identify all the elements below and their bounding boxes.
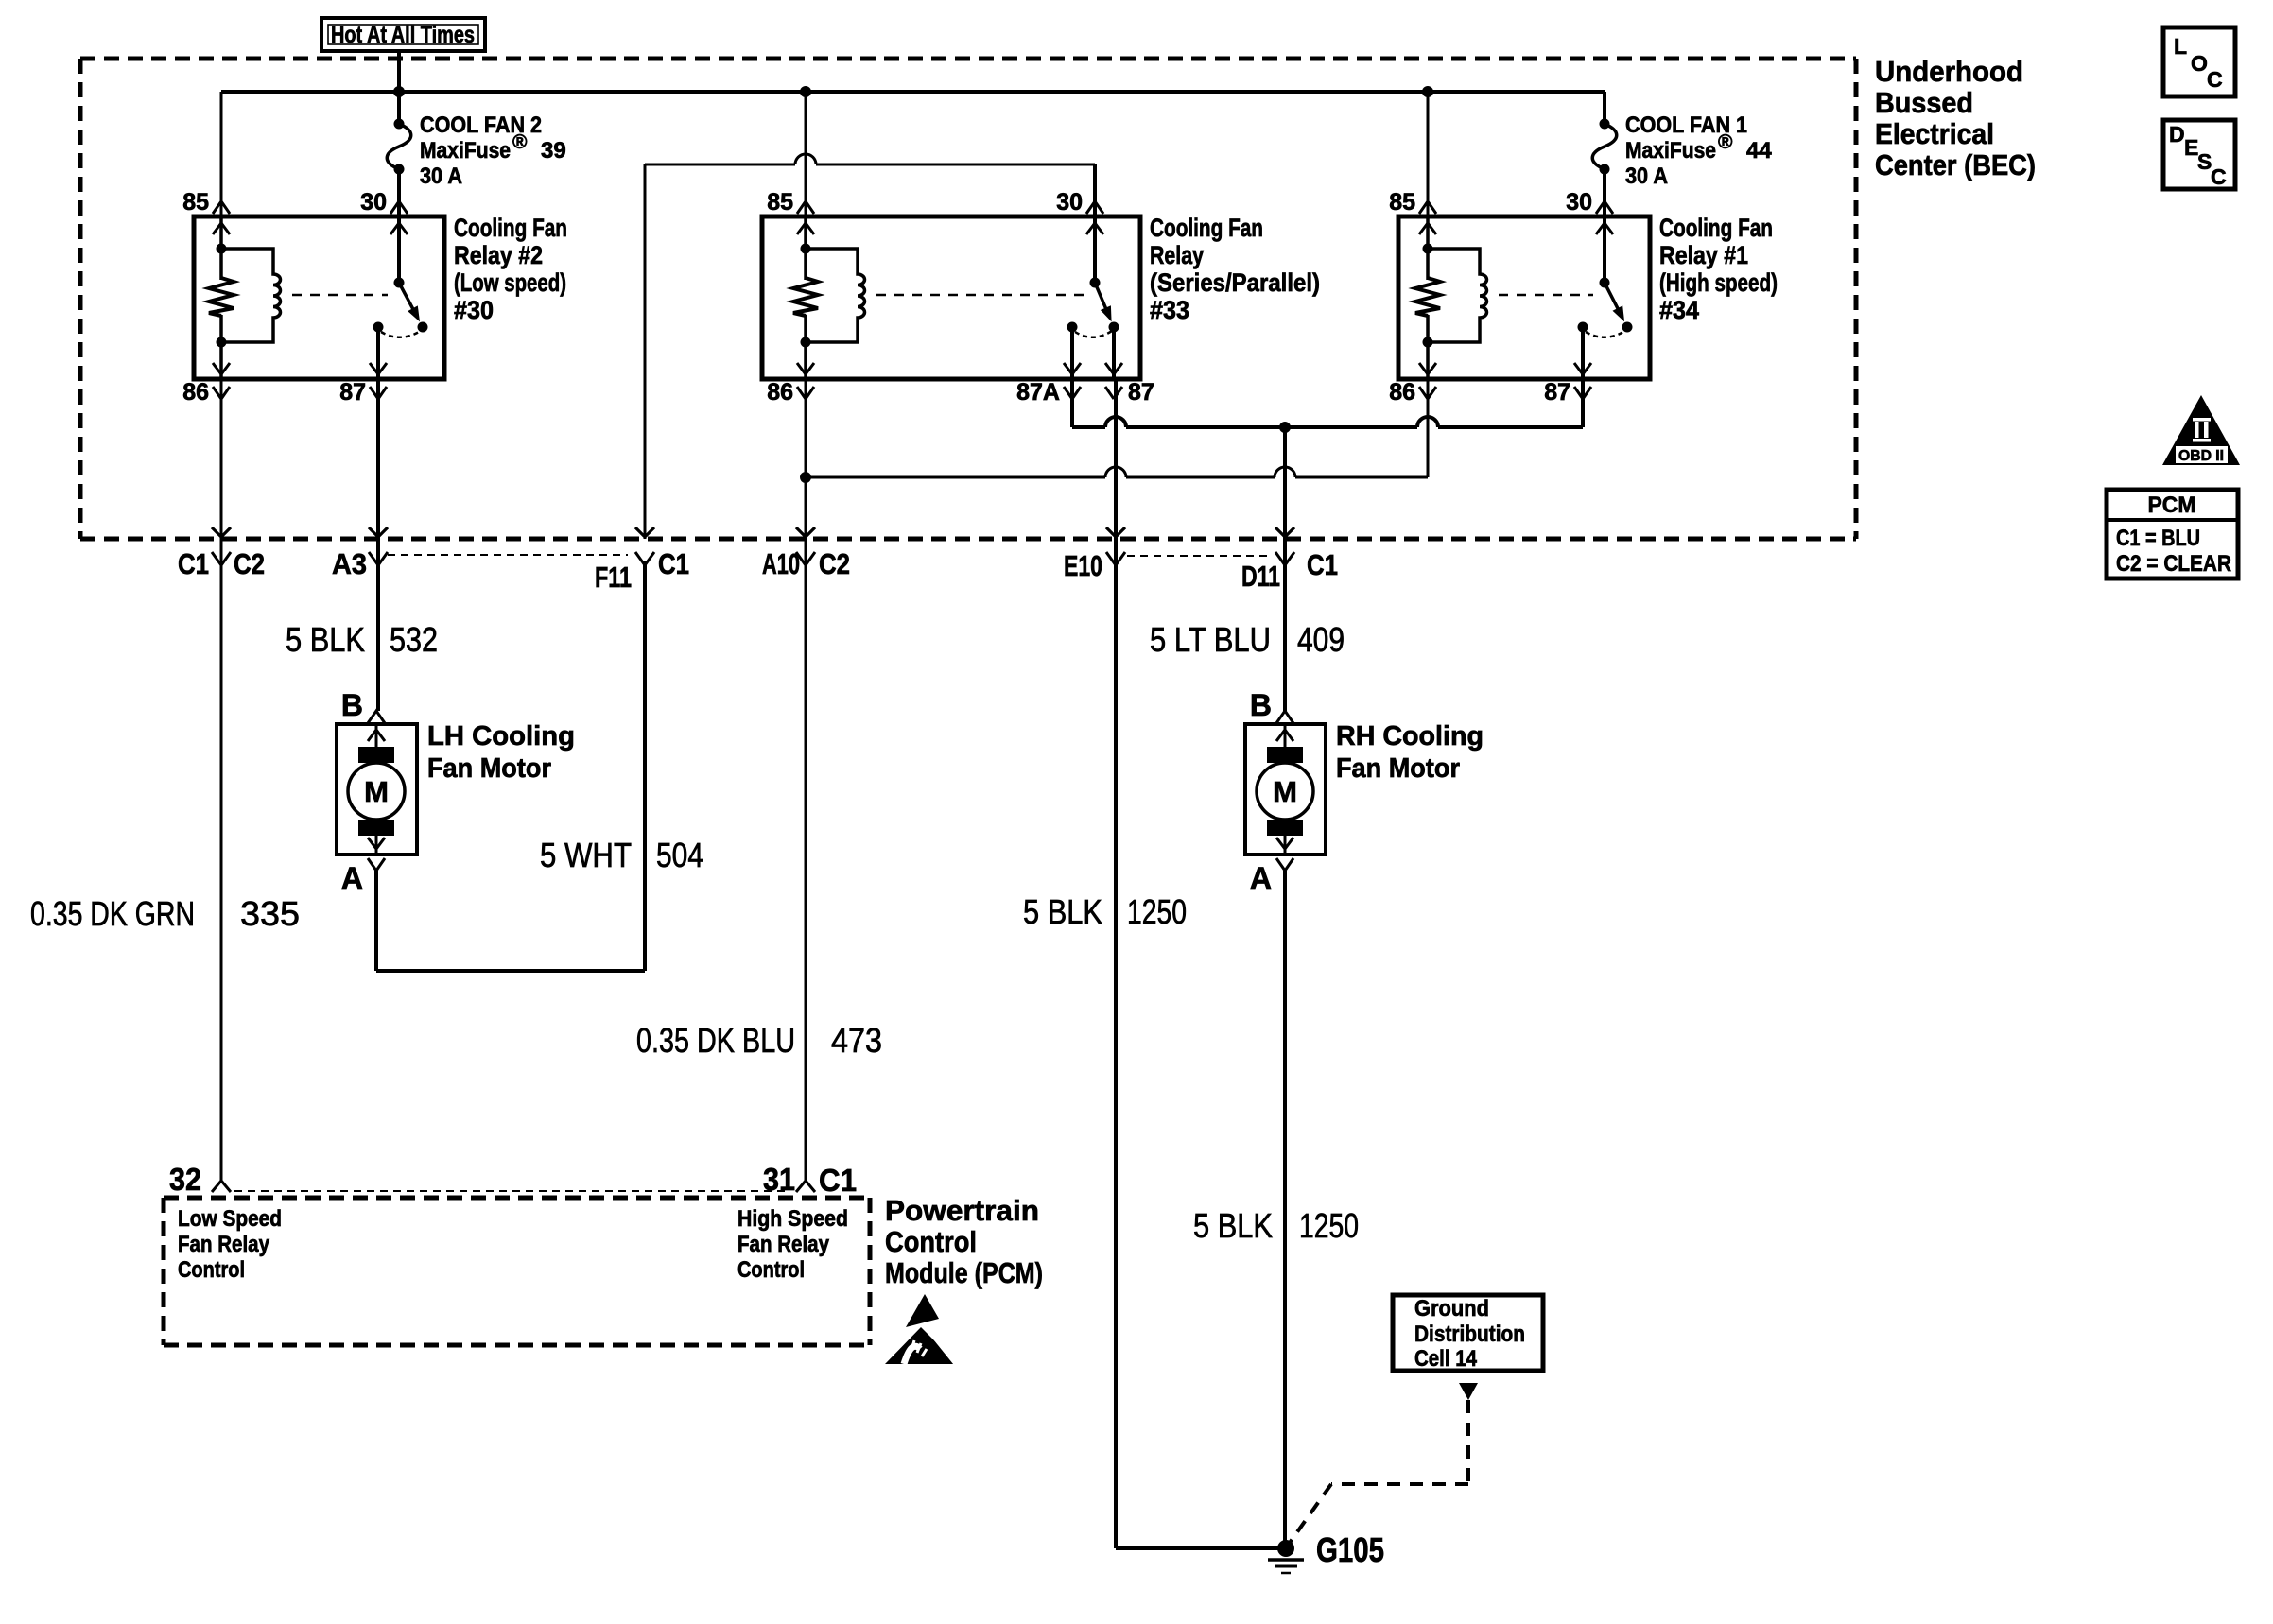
junction: bus / relay33 coil <box>800 86 811 97</box>
label BEC <box>1875 55 2036 181</box>
relay switch common (pin 30) <box>397 216 401 283</box>
svg-text:MaxiFuse: MaxiFuse <box>1625 138 1716 164</box>
PCM pin 31 <box>763 1162 857 1198</box>
label Powertrain Control Module (PCM) <box>885 1194 1043 1289</box>
pin 85 <box>213 201 230 214</box>
svg-text:5 LT BLU: 5 LT BLU <box>1150 620 1271 659</box>
wire: C2 to PCM pin 32 (0.35 DK GRN 335) <box>220 539 223 1181</box>
svg-text:87A: 87A <box>1016 379 1060 406</box>
wire: battery feed from Hot At All Times <box>397 51 401 92</box>
svg-text:MaxiFuse: MaxiFuse <box>420 138 511 164</box>
pin 87 <box>1105 387 1122 399</box>
svg-text:30: 30 <box>1566 189 1592 216</box>
wire bridge over relay33 coil wire <box>795 154 816 164</box>
connector A10 <box>796 527 815 537</box>
svg-text:Center (BEC): Center (BEC) <box>1875 148 2036 181</box>
svg-text:F11: F11 <box>595 561 632 594</box>
svg-text:0.35 DK BLU: 0.35 DK BLU <box>636 1021 795 1060</box>
svg-text:86: 86 <box>1389 379 1415 406</box>
svg-text:RH Cooling: RH Cooling <box>1336 721 1484 752</box>
relay output pin wire <box>1112 327 1116 379</box>
svg-text:Fan Relay: Fan Relay <box>178 1232 270 1257</box>
pin 86 <box>797 387 814 399</box>
wire: relay33 pin 86 down to A10/C2 <box>805 379 807 539</box>
relay resistor <box>209 278 234 316</box>
svg-text:A3: A3 <box>332 547 367 580</box>
svg-text:Cooling Fan: Cooling Fan <box>1150 214 1263 242</box>
svg-text:E10: E10 <box>1064 549 1102 582</box>
relay contact travel dashed arc <box>381 331 421 337</box>
relay coil branch wire <box>1426 216 1430 280</box>
wire: A3 to LH fan motor pin B (5 BLK 532) <box>376 539 380 711</box>
DESC reference box <box>2163 120 2235 189</box>
svg-text:B: B <box>341 688 363 722</box>
wire: bus to relay34 pin 85 <box>1427 92 1430 216</box>
connector E10 <box>1106 527 1125 537</box>
label High Speed Fan Relay Control <box>737 1206 848 1283</box>
relay contact travel dashed arc <box>1586 331 1625 337</box>
fuse COOL FAN 1 MaxiFuse 44 <box>1592 119 1617 175</box>
wire bridge over E10 wire <box>1105 467 1126 477</box>
Ground Distribution Cell 14 box <box>1393 1295 1543 1372</box>
svg-text:Relay #1: Relay #1 <box>1659 241 1748 269</box>
svg-text:C1: C1 <box>658 547 689 580</box>
label fuse 44 <box>1625 112 1772 189</box>
svg-text:High Speed: High Speed <box>737 1206 848 1232</box>
svg-text:(High speed): (High speed) <box>1659 268 1778 297</box>
svg-text:Fan Motor: Fan Motor <box>427 753 551 784</box>
svg-text:87: 87 <box>1544 379 1570 406</box>
motor symbol M <box>1257 763 1313 820</box>
pin 30 <box>1086 201 1103 214</box>
BEC bottom connector row <box>212 527 1294 565</box>
svg-text:30: 30 <box>1056 189 1083 216</box>
svg-text:504: 504 <box>656 836 703 874</box>
wire: B+ bus inside BEC <box>221 90 1605 94</box>
wire bridge over D11 wire <box>1275 467 1295 477</box>
LOC reference box <box>2163 27 2235 96</box>
relay output pin wire <box>376 327 380 379</box>
svg-text:C1: C1 <box>1307 548 1338 581</box>
svg-text:®: ® <box>512 131 528 153</box>
svg-text:#33: #33 <box>1150 296 1189 324</box>
dashed link to G105 <box>1290 1400 1468 1543</box>
wire: bus to fuse 44 <box>1603 92 1606 124</box>
svg-text:C: C <box>2211 164 2227 189</box>
relay coil <box>1428 249 1487 342</box>
svg-text:D11: D11 <box>1241 560 1280 593</box>
OBD II triangle icon <box>2162 395 2240 465</box>
svg-text:Distribution: Distribution <box>1414 1322 1525 1347</box>
svg-text:1250: 1250 <box>1299 1206 1359 1245</box>
svg-text:(Low speed): (Low speed) <box>454 268 566 297</box>
svg-text:0.35 DK GRN: 0.35 DK GRN <box>30 894 195 933</box>
svg-text:B: B <box>1250 688 1272 722</box>
svg-text:Cell 14: Cell 14 <box>1414 1346 1478 1372</box>
Underhood Bussed Electrical Center (BEC) dashed box <box>80 59 1856 539</box>
svg-text:32: 32 <box>169 1162 201 1197</box>
wire: relay33 86 junction to relay34 pin 86 <box>806 379 1428 477</box>
PCM connector legend box <box>2107 490 2238 579</box>
relay coil <box>806 249 865 342</box>
pin 86 <box>213 387 230 399</box>
power feed label "Hot At All Times" <box>321 18 485 51</box>
pin B <box>1276 711 1293 723</box>
svg-text:86: 86 <box>767 379 793 406</box>
label fuse 39 <box>420 112 566 189</box>
pin A <box>1276 858 1293 871</box>
svg-text:Cooling Fan: Cooling Fan <box>454 214 567 242</box>
relay K33 Cooling Fan Relay (Series/Parallel) <box>762 189 1320 406</box>
relay K34 Cooling Fan Relay #1 (High speed) <box>1389 189 1778 406</box>
relay actuation dashed link <box>876 294 1084 297</box>
svg-text:Control: Control <box>737 1257 805 1283</box>
svg-text:(Series/Parallel): (Series/Parallel) <box>1150 268 1320 297</box>
label Low Speed Fan Relay Control <box>178 1206 282 1283</box>
wire: relay33 pin 87 down to E10 <box>1114 379 1118 539</box>
relay resistor <box>1415 278 1440 316</box>
fuse COOL FAN 2 MaxiFuse 39 <box>387 119 411 175</box>
svg-text:G105: G105 <box>1316 1530 1384 1569</box>
ground G105 <box>1268 1530 1384 1573</box>
svg-text:30 A: 30 A <box>1625 164 1668 189</box>
svg-text:Ground: Ground <box>1414 1296 1489 1322</box>
svg-text:85: 85 <box>767 189 793 216</box>
svg-text:Electrical: Electrical <box>1875 117 1994 150</box>
svg-text:Cooling Fan: Cooling Fan <box>1659 214 1773 242</box>
wire bridge over relay34 86 wire <box>1417 417 1438 427</box>
wire: bus to fuse 39 <box>397 92 401 124</box>
junction: bus / hot feed <box>393 86 405 97</box>
svg-text:Fan Relay: Fan Relay <box>737 1232 830 1257</box>
svg-text:®: ® <box>1718 131 1733 153</box>
wire: relay30 pin 86 to connector C1/C2 (0.35 DK GRN) <box>220 379 223 539</box>
wire: bus to relay30 pin 85 <box>220 92 223 216</box>
svg-text:Relay #2: Relay #2 <box>454 241 543 269</box>
wire: F11 feed to relay33 pin 30 (5 WHT upstream) <box>645 154 1095 539</box>
pin B <box>368 711 385 723</box>
svg-text:44: 44 <box>1746 138 1772 164</box>
svg-text:C: C <box>2207 67 2223 92</box>
wire: bus to relay33 pin 85 <box>805 92 807 216</box>
junction: bus / relay34 coil <box>1422 86 1433 97</box>
relay actuation dashed link <box>1499 294 1593 297</box>
junction: 87A crossover / D11 drop <box>1279 422 1291 433</box>
wire: E10 to G105 (5 BLK 1250) <box>1116 539 1278 1548</box>
pin 87 <box>370 387 387 399</box>
pin 30 <box>1596 201 1613 214</box>
svg-text:30: 30 <box>360 189 387 216</box>
svg-text:Low Speed: Low Speed <box>178 1206 282 1232</box>
relay actuation dashed link <box>292 294 388 297</box>
RH Cooling Fan Motor <box>1245 688 1484 895</box>
svg-text:A: A <box>341 861 363 895</box>
svg-text:D: D <box>2169 122 2185 147</box>
ESD sensitivity symbol <box>885 1294 959 1365</box>
connector A3 <box>369 527 388 537</box>
relay switch blade <box>1605 283 1619 310</box>
svg-text:OBD II: OBD II <box>2178 448 2224 464</box>
relay K30 Cooling Fan Relay #2 (Low speed) <box>182 189 567 406</box>
svg-text:39: 39 <box>541 138 566 164</box>
wire: RH motor A to G105 (5 BLK 1250) <box>1283 871 1287 1548</box>
motor symbol M <box>348 763 405 820</box>
svg-text:335: 335 <box>240 894 300 933</box>
relay switch contact <box>1578 322 1588 333</box>
pin 87A <box>1064 387 1081 399</box>
svg-text:Powertrain: Powertrain <box>885 1194 1039 1227</box>
svg-text:5 BLK: 5 BLK <box>1023 892 1102 931</box>
connector C1 <box>212 527 231 537</box>
wire: LH motor A loop to F11 (5 WHT 504) <box>376 561 645 971</box>
svg-text:1250: 1250 <box>1127 892 1187 931</box>
svg-text:M: M <box>1273 775 1297 808</box>
svg-text:5 BLK: 5 BLK <box>1193 1206 1273 1245</box>
svg-text:409: 409 <box>1297 620 1345 659</box>
svg-text:M: M <box>364 775 389 808</box>
dashed connector link E10-D11 <box>1127 555 1272 557</box>
svg-text:C1: C1 <box>178 547 209 580</box>
relay switch common (pin 30) <box>1093 216 1097 283</box>
relay switch common (pin 30) <box>1603 216 1606 283</box>
svg-text:L: L <box>2174 34 2187 59</box>
svg-text:#34: #34 <box>1659 296 1699 324</box>
svg-text:C1 = BLU: C1 = BLU <box>2116 526 2200 551</box>
svg-text:532: 532 <box>390 620 438 659</box>
PCM pin 32 <box>169 1162 231 1197</box>
relay coil <box>221 249 281 342</box>
svg-text:Hot At All Times: Hot At All Times <box>331 22 475 48</box>
relay contact travel dashed arc <box>1075 331 1112 337</box>
pin 85 <box>797 201 814 214</box>
svg-text:Fan Motor: Fan Motor <box>1336 753 1460 784</box>
wire: relay33 87A to relay34 87 crossover <box>1072 379 1583 427</box>
svg-text:A: A <box>1250 861 1272 895</box>
svg-text:Module (PCM): Module (PCM) <box>885 1256 1043 1289</box>
svg-text:Control: Control <box>178 1257 245 1283</box>
wire: fuse 44 to relay34 pin 30 <box>1603 169 1606 216</box>
svg-text:85: 85 <box>182 189 209 216</box>
svg-text:A10: A10 <box>762 547 800 580</box>
svg-text:Bussed: Bussed <box>1875 86 1973 119</box>
wire: fuse 39 to relay30 pin 30 <box>397 169 401 216</box>
connector D11 <box>1275 527 1294 537</box>
junction: relay33 86 / crossover to relay34 86 <box>800 472 811 483</box>
svg-text:PCM: PCM <box>2148 492 2196 518</box>
pin A <box>368 858 385 871</box>
svg-text:Control: Control <box>885 1225 977 1258</box>
svg-text:5 WHT: 5 WHT <box>540 836 632 874</box>
Powertrain Control Module dashed box <box>164 1198 870 1345</box>
relay switch blade <box>399 283 414 310</box>
pin 30 <box>390 201 408 214</box>
relay output pin wire <box>1070 327 1074 379</box>
dashed connector link 32-31 <box>234 1190 790 1192</box>
pin 86 <box>1419 387 1436 399</box>
svg-text:87: 87 <box>339 379 366 406</box>
relay coil branch wire <box>219 216 223 280</box>
relay switch blade <box>1095 283 1106 310</box>
relay output pin wire <box>1581 327 1585 379</box>
svg-text:85: 85 <box>1389 189 1415 216</box>
wire: A10 to PCM pin 31 (0.35 DK BLU 473) <box>805 539 807 1181</box>
wire: junction down to D11 <box>1283 427 1287 539</box>
connector F11 <box>635 527 654 537</box>
relay resistor <box>793 278 818 316</box>
svg-text:Relay: Relay <box>1150 241 1204 269</box>
dashed connector link A3-F11 <box>388 554 628 556</box>
svg-text:#30: #30 <box>454 296 494 324</box>
svg-text:87: 87 <box>1128 379 1154 406</box>
svg-text:C2: C2 <box>234 547 265 580</box>
wire: relay30 pin 87 to connector A3 (5 BLK) <box>376 379 380 539</box>
svg-text:C2 = CLEAR: C2 = CLEAR <box>2116 551 2231 577</box>
LH Cooling Fan Motor <box>337 688 575 895</box>
svg-text:C1: C1 <box>819 1163 857 1198</box>
relay coil branch wire <box>804 216 807 280</box>
svg-text:86: 86 <box>182 379 209 406</box>
wire bridge over E10 wire <box>1105 417 1126 427</box>
pin 85 <box>1419 201 1436 214</box>
svg-text:O: O <box>2191 51 2208 76</box>
wire: D11 to RH fan motor pin B (5 LT BLU 409) <box>1283 539 1287 711</box>
relay switch contact <box>1067 322 1078 333</box>
svg-text:5 BLK: 5 BLK <box>286 620 365 659</box>
svg-text:LH Cooling: LH Cooling <box>427 721 575 752</box>
ground reference triangle <box>1459 1383 1478 1400</box>
svg-text:473: 473 <box>831 1021 882 1060</box>
svg-text:C2: C2 <box>819 547 850 580</box>
relay switch contact <box>373 322 384 333</box>
pin 87 <box>1574 387 1591 399</box>
svg-text:30 A: 30 A <box>420 164 462 189</box>
svg-text:Underhood: Underhood <box>1875 55 2023 88</box>
